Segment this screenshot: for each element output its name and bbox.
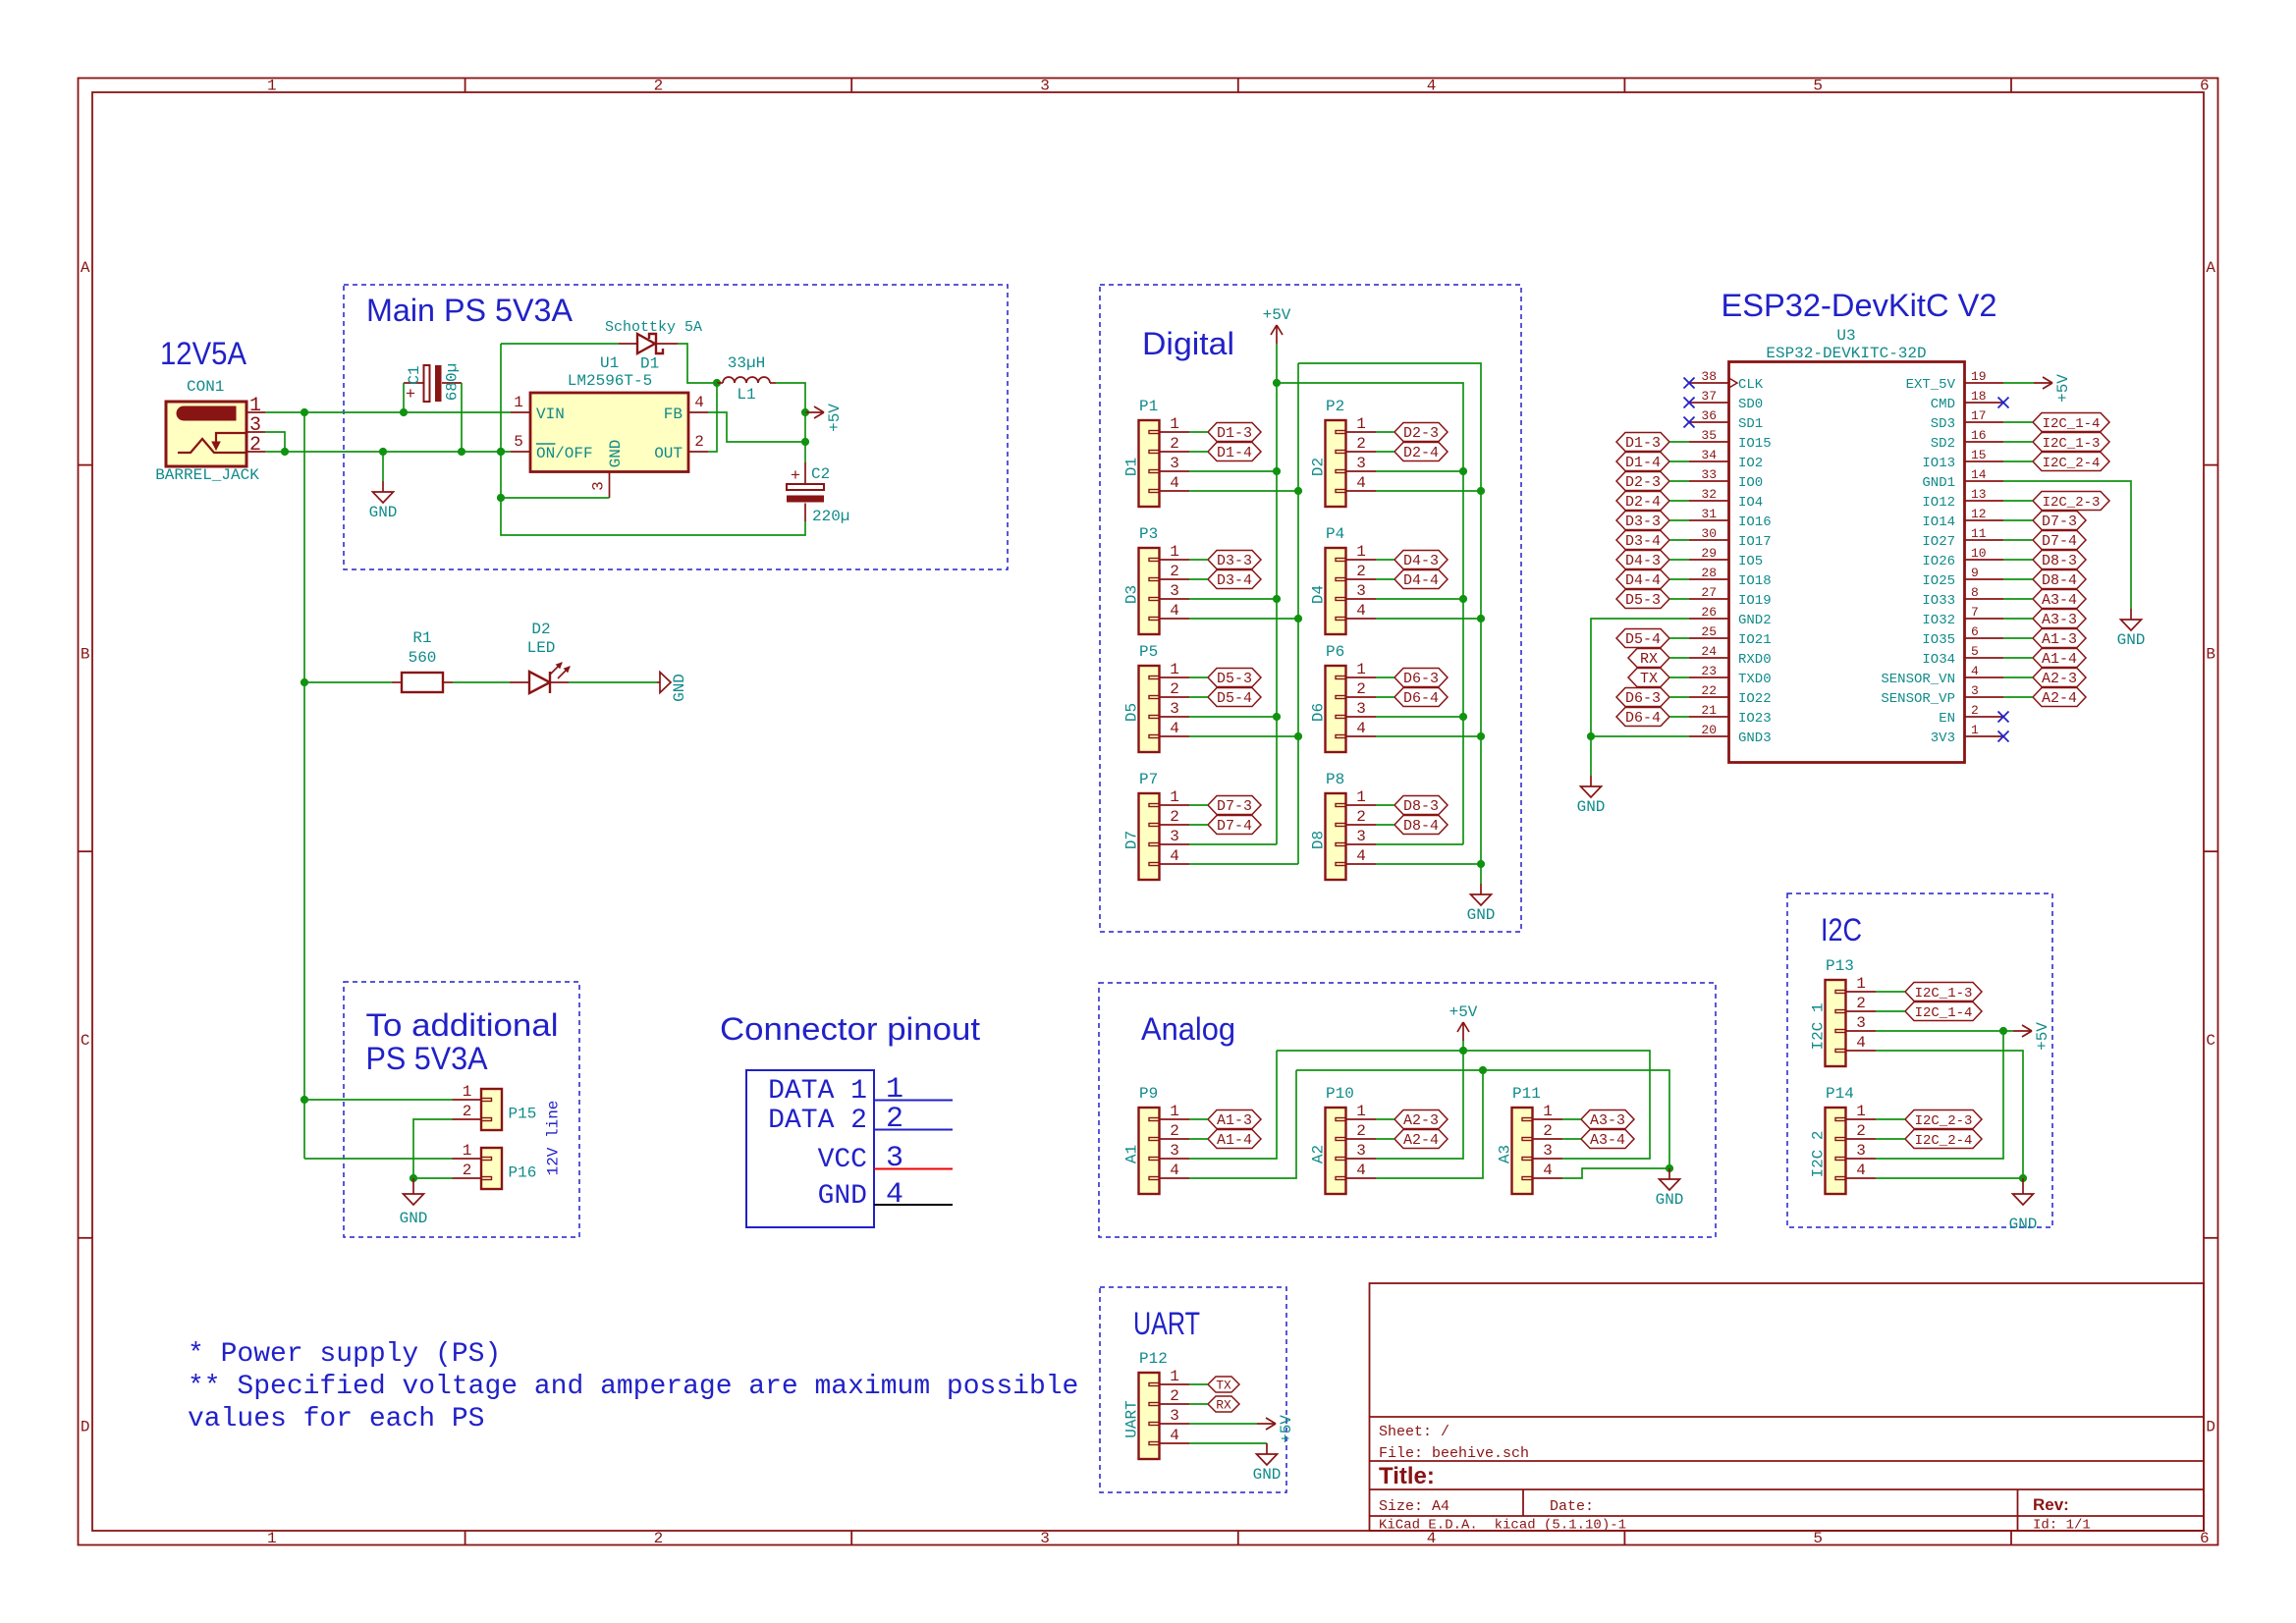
svg-text:D2-3: D2-3 — [1403, 425, 1439, 442]
wire 12V to R1 — [304, 681, 392, 683]
svg-text:PS 5V3A: PS 5V3A — [366, 1041, 489, 1076]
svg-text:680µ: 680µ — [444, 363, 462, 401]
svg-text:34: 34 — [1701, 448, 1717, 462]
global label D2-4 — [1616, 492, 1669, 512]
svg-text:D3-3: D3-3 — [1625, 514, 1661, 530]
junction U3 gnd — [1587, 732, 1595, 740]
svg-text:D8-4: D8-4 — [2042, 572, 2077, 589]
svg-text:I2C_1-3: I2C_1-3 — [2043, 436, 2101, 452]
svg-text:+5V: +5V — [2034, 1022, 2051, 1051]
global label D3-3 — [1208, 551, 1261, 570]
global label D2-3 — [1394, 423, 1448, 443]
svg-text:D7-4: D7-4 — [1217, 818, 1252, 835]
svg-text:23: 23 — [1701, 664, 1717, 678]
global label TX — [1208, 1377, 1239, 1393]
junction i2c +5V — [1999, 1027, 2007, 1035]
svg-text:C2: C2 — [811, 465, 830, 483]
svg-text:GND: GND — [1467, 906, 1496, 924]
svg-text:IO16: IO16 — [1738, 514, 1772, 530]
global label D2-3 — [1616, 472, 1669, 492]
svg-text:P15: P15 — [509, 1106, 537, 1123]
section box UART — [1100, 1287, 1286, 1492]
wire digital GND bus left — [1297, 363, 1299, 864]
connector P10 (A2) — [1310, 1085, 1377, 1194]
svg-text:1: 1 — [1356, 1103, 1366, 1120]
svg-text:6: 6 — [1971, 624, 1979, 639]
global label D4-3 — [1616, 551, 1669, 570]
LED D2 — [510, 621, 570, 693]
svg-text:4: 4 — [1170, 1162, 1179, 1179]
svg-text:D6-3: D6-3 — [1403, 671, 1439, 687]
svg-text:Sheet: /: Sheet: / — [1379, 1424, 1449, 1440]
ground GND (analog) — [1656, 1168, 1684, 1209]
svg-text:1: 1 — [267, 78, 277, 95]
wire P1 pin1 label — [1189, 431, 1208, 433]
junction GND at x510 — [497, 448, 505, 456]
svg-text:Schottky 5A: Schottky 5A — [605, 319, 702, 336]
svg-text:D1-3: D1-3 — [1217, 425, 1252, 442]
global label A2-4 — [2033, 688, 2086, 708]
svg-text:17: 17 — [1971, 408, 1987, 423]
svg-text:27: 27 — [1701, 585, 1717, 600]
wire P16 pin2 to GND — [413, 1177, 453, 1179]
svg-text:P10: P10 — [1326, 1085, 1354, 1103]
svg-text:D6-4: D6-4 — [1403, 690, 1439, 707]
svg-text:SENSOR_VP: SENSOR_VP — [1881, 691, 1955, 707]
global label D8-3 — [2033, 551, 2086, 570]
svg-text:D: D — [81, 1419, 90, 1436]
svg-text:1: 1 — [1856, 1103, 1866, 1120]
wire P8 pin4 GND — [1376, 863, 1481, 865]
ground GND — [1467, 884, 1496, 924]
wire P1 pin2 label — [1189, 451, 1208, 453]
svg-text:3: 3 — [1170, 582, 1179, 600]
svg-text:3: 3 — [1356, 582, 1366, 600]
svg-text:IO34: IO34 — [1922, 652, 1955, 668]
svg-text:Date:: Date: — [1550, 1498, 1594, 1515]
wire D8-3 to U3 — [2003, 559, 2033, 561]
pinout line 4 (GND) — [874, 1204, 953, 1206]
svg-text:3V3: 3V3 — [1931, 730, 1955, 746]
svg-text:DATA 2: DATA 2 — [768, 1106, 867, 1136]
wire A2-3 to U3 — [2003, 676, 2033, 678]
svg-text:4: 4 — [1427, 78, 1437, 95]
wire P13 pin4 GND — [1876, 1051, 2023, 1178]
svg-text:D8-4: D8-4 — [1403, 818, 1439, 835]
svg-text:2: 2 — [886, 1103, 903, 1136]
svg-text:R1: R1 — [412, 629, 431, 647]
diode D1 (Schottky 5A) — [605, 319, 702, 373]
svg-text:D6: D6 — [1310, 703, 1328, 722]
svg-text:D8-3: D8-3 — [2042, 553, 2077, 569]
svg-text:2: 2 — [463, 1162, 472, 1179]
svg-text:P11: P11 — [1512, 1085, 1541, 1103]
wire digital +5V rail top — [1277, 383, 1463, 844]
svg-text:P3: P3 — [1139, 525, 1158, 543]
junction 12V rail at P15 — [301, 1096, 308, 1104]
svg-text:GND: GND — [2117, 631, 2146, 649]
wire P2 pin3 +5V — [1376, 470, 1463, 472]
global label D7-3 — [2033, 512, 2086, 531]
wire P1 pin4 GND — [1189, 490, 1298, 492]
svg-text:VCC: VCC — [818, 1145, 867, 1175]
wire R1 to D2 — [453, 681, 510, 683]
global label I2C_1-4 — [1905, 1002, 1982, 1022]
wire A1-4 to U3 — [2003, 657, 2033, 659]
svg-text:3: 3 — [1170, 828, 1179, 845]
svg-text:A2-3: A2-3 — [2042, 671, 2077, 687]
svg-text:To additional: To additional — [366, 1007, 559, 1043]
svg-text:31: 31 — [1701, 507, 1717, 521]
svg-text:2: 2 — [694, 433, 704, 451]
svg-text:IO13: IO13 — [1922, 456, 1955, 471]
wire D2-4 to U3 — [1669, 500, 1689, 502]
svg-text:TXD0: TXD0 — [1738, 672, 1772, 687]
ground GND — [1253, 1443, 1282, 1484]
wire P11 pin1 label — [1562, 1118, 1581, 1120]
wire P10 pin3 riser — [1376, 1051, 1463, 1159]
svg-text:RXD0: RXD0 — [1738, 652, 1772, 668]
svg-text:1: 1 — [1356, 415, 1366, 433]
svg-text:2: 2 — [1356, 808, 1366, 826]
svg-text:A1-4: A1-4 — [2042, 651, 2077, 668]
wire P12 pin3 to +5V — [1189, 1423, 1257, 1425]
svg-text:B: B — [2206, 645, 2215, 663]
svg-text:22: 22 — [1701, 683, 1717, 698]
svg-text:P7: P7 — [1139, 771, 1158, 788]
svg-text:D3-4: D3-4 — [1625, 533, 1661, 550]
wire D4-3 to U3 — [1669, 559, 1689, 561]
svg-text:IO27: IO27 — [1922, 534, 1955, 550]
svg-text:16: 16 — [1971, 428, 1987, 443]
svg-text:CLK: CLK — [1738, 377, 1764, 393]
power +5V — [1263, 306, 1291, 344]
global label D7-4 — [2033, 531, 2086, 551]
no-connect X — [1998, 731, 2009, 742]
svg-text:GND: GND — [607, 440, 625, 468]
svg-text:1: 1 — [1170, 661, 1179, 678]
svg-text:IO14: IO14 — [1922, 514, 1955, 530]
svg-text:D7-3: D7-3 — [2042, 514, 2077, 530]
svg-text:+5V: +5V — [1263, 306, 1291, 324]
svg-text:560: 560 — [409, 649, 437, 667]
wire GND drop to symbol — [382, 452, 384, 481]
svg-text:CMD: CMD — [1931, 397, 1955, 412]
wire P4 pin2 label — [1376, 578, 1394, 580]
svg-text:5: 5 — [1813, 1530, 1823, 1547]
global label D4-3 — [1394, 551, 1448, 570]
wire P7 pin4 GND — [1189, 863, 1298, 865]
svg-text:I2C_1-4: I2C_1-4 — [1915, 1005, 1973, 1021]
wire P12 pin1 to TX — [1189, 1383, 1208, 1385]
wire P14 pin3 riser — [1876, 1031, 2003, 1159]
svg-text:28: 28 — [1701, 566, 1717, 580]
global label D1-4 — [1208, 443, 1261, 462]
global label D6-3 — [1616, 688, 1669, 708]
pinout line 2 — [874, 1129, 953, 1131]
wire D3-4 to U3 — [1669, 539, 1689, 541]
svg-text:GND: GND — [671, 674, 688, 702]
svg-text:* Power supply (PS): * Power supply (PS) — [188, 1339, 501, 1370]
global label A2-4 — [1394, 1130, 1448, 1150]
global label TX — [1628, 669, 1669, 688]
wire P10 pin1 label — [1376, 1118, 1394, 1120]
svg-text:IO0: IO0 — [1738, 475, 1763, 491]
svg-text:IO21: IO21 — [1738, 632, 1772, 648]
wire P2 pin4 GND — [1376, 490, 1481, 492]
svg-text:1: 1 — [1170, 788, 1179, 806]
svg-text:33: 33 — [1701, 467, 1717, 482]
svg-text:IO12: IO12 — [1922, 495, 1955, 511]
svg-text:GND: GND — [1577, 798, 1606, 816]
svg-text:+5V: +5V — [1278, 1415, 1295, 1443]
svg-text:5: 5 — [1813, 78, 1823, 95]
junction P15/P16 GND — [410, 1174, 417, 1182]
connector P5 (D5) — [1123, 643, 1190, 752]
svg-text:26: 26 — [1701, 605, 1717, 620]
svg-text:D4-4: D4-4 — [1625, 572, 1661, 589]
svg-text:2: 2 — [654, 78, 664, 95]
svg-text:2: 2 — [1856, 1122, 1866, 1140]
svg-text:I2C_2-3: I2C_2-3 — [2043, 495, 2101, 511]
svg-text:2: 2 — [1543, 1122, 1553, 1140]
text notes — [188, 1339, 1078, 1434]
power +5V (rotated) — [1257, 1415, 1295, 1443]
svg-text:+5V: +5V — [2054, 374, 2072, 403]
svg-text:6: 6 — [2200, 1530, 2210, 1547]
svg-text:8: 8 — [1971, 585, 1979, 600]
global label A3-4 — [2033, 590, 2086, 610]
global label D2-4 — [1394, 443, 1448, 462]
svg-text:D4-4: D4-4 — [1403, 572, 1439, 589]
connector P15 — [453, 1083, 537, 1130]
svg-text:D7: D7 — [1123, 831, 1141, 849]
wire P5 pin4 GND — [1189, 735, 1298, 737]
svg-text:15: 15 — [1971, 448, 1987, 462]
junction 12V at C1 — [400, 408, 408, 416]
no-connect X — [1684, 378, 1695, 389]
svg-text:VIN: VIN — [536, 406, 565, 423]
svg-text:TX: TX — [1216, 1379, 1231, 1393]
ground GND — [1577, 776, 1606, 816]
wire GND net (CON1 pin2 to U1 ON/OFF) — [265, 451, 511, 453]
svg-text:3: 3 — [1170, 700, 1179, 718]
svg-text:D6-4: D6-4 — [1625, 710, 1661, 727]
svg-text:+5V: +5V — [826, 404, 844, 432]
junction d — [1459, 713, 1467, 721]
svg-text:29: 29 — [1701, 546, 1717, 561]
power +5V (rotated) — [2013, 1022, 2051, 1051]
wire 12V net (CON1 pin1 to U1 VIN) — [265, 411, 511, 413]
svg-text:1: 1 — [1356, 788, 1366, 806]
junction GND loop at pin5 — [497, 448, 505, 456]
svg-text:D4-3: D4-3 — [1625, 553, 1661, 569]
global label D5-3 — [1208, 669, 1261, 688]
svg-text:P16: P16 — [509, 1164, 537, 1182]
svg-text:12V line: 12V line — [545, 1101, 563, 1176]
svg-text:220µ: 220µ — [812, 508, 849, 525]
junction switch node — [713, 379, 721, 387]
svg-text:2: 2 — [1356, 680, 1366, 698]
section box Analog — [1099, 983, 1716, 1237]
global label D6-4 — [1394, 688, 1448, 708]
svg-text:D1-4: D1-4 — [1217, 445, 1252, 461]
svg-text:D1-4: D1-4 — [1625, 455, 1661, 471]
svg-text:1: 1 — [886, 1073, 903, 1107]
wire C2 bottom loop — [501, 344, 805, 535]
svg-text:1: 1 — [267, 1530, 277, 1547]
junction +5V node — [801, 408, 809, 416]
power +5V (rotated) — [2034, 374, 2072, 403]
global label D5-4 — [1208, 688, 1261, 708]
svg-text:D2: D2 — [1310, 458, 1328, 476]
svg-text:GND: GND — [400, 1210, 428, 1227]
svg-text:4: 4 — [1170, 602, 1179, 620]
svg-text:ON/OFF: ON/OFF — [536, 445, 593, 462]
svg-text:3: 3 — [1856, 1014, 1866, 1032]
wire P13 pin3 +5V — [1876, 1030, 2013, 1032]
svg-text:3: 3 — [1040, 1530, 1050, 1547]
svg-text:3: 3 — [1170, 1407, 1179, 1425]
junction d — [1273, 595, 1281, 603]
svg-text:P8: P8 — [1326, 771, 1344, 788]
svg-text:25: 25 — [1701, 624, 1717, 639]
wire P3 pin1 label — [1189, 559, 1208, 561]
global label I2C_2-4 — [1905, 1130, 1982, 1150]
global label I2C_1-3 — [1905, 983, 1982, 1002]
wire 12V vertical rail — [303, 412, 305, 1159]
wire P4 pin4 GND — [1376, 618, 1481, 620]
wire P6 pin4 GND — [1376, 735, 1481, 737]
wire P9 pin3 to +5V rail — [1189, 1051, 1277, 1159]
svg-text:1: 1 — [1170, 1368, 1179, 1385]
svg-text:D6-3: D6-3 — [1625, 690, 1661, 707]
svg-text:37: 37 — [1701, 389, 1717, 404]
junction analog GND at P10 — [1479, 1066, 1487, 1074]
wire P13 pin2 label — [1876, 1010, 1905, 1012]
svg-text:P13: P13 — [1826, 957, 1854, 975]
section box Digital — [1100, 285, 1521, 932]
svg-text:32: 32 — [1701, 487, 1717, 502]
svg-text:2: 2 — [1170, 680, 1179, 698]
connector P3 (D3) — [1123, 525, 1190, 634]
global label D5-4 — [1616, 629, 1669, 649]
svg-text:1: 1 — [1856, 975, 1866, 993]
svg-text:14: 14 — [1971, 467, 1987, 482]
svg-text:I2C_1-3: I2C_1-3 — [1915, 986, 1973, 1001]
svg-text:I2C: I2C — [1821, 912, 1862, 947]
inductor L1 (33uH) — [717, 354, 776, 404]
global label D6-3 — [1394, 669, 1448, 688]
global label D7-4 — [1208, 816, 1261, 836]
svg-text:Main PS 5V3A: Main PS 5V3A — [366, 293, 574, 328]
svg-text:11: 11 — [1971, 526, 1987, 541]
svg-text:4: 4 — [1170, 847, 1179, 865]
wire P11 pin4 jog — [1562, 1168, 1669, 1178]
svg-text:DATA 1: DATA 1 — [768, 1076, 867, 1107]
svg-text:Digital: Digital — [1142, 326, 1234, 361]
svg-text:36: 36 — [1701, 408, 1717, 423]
wire P11 pin2 label — [1562, 1138, 1581, 1140]
svg-text:GND: GND — [818, 1181, 867, 1212]
global label I2C_2-4 — [2033, 453, 2109, 472]
wire P3 pin4 GND — [1189, 618, 1298, 620]
wire analog GND rail — [1296, 1070, 1669, 1168]
svg-text:D7-4: D7-4 — [2042, 533, 2077, 550]
svg-text:3: 3 — [1356, 700, 1366, 718]
wire D7-4 to U3 — [2003, 539, 2033, 541]
junction d — [1273, 713, 1281, 721]
svg-text:6: 6 — [2200, 78, 2210, 95]
svg-text:1: 1 — [463, 1083, 472, 1101]
wire P10 pin4 riser — [1376, 1070, 1483, 1178]
svg-text:SENSOR_VN: SENSOR_VN — [1881, 672, 1955, 687]
ground GND — [369, 481, 398, 521]
wire P12 pin2 to RX — [1189, 1403, 1208, 1405]
svg-text:D1-3: D1-3 — [1625, 435, 1661, 452]
svg-text:D3: D3 — [1123, 585, 1141, 604]
junction d — [1459, 595, 1467, 603]
svg-text:A2: A2 — [1310, 1145, 1328, 1163]
junction d — [1294, 732, 1302, 740]
wire C1 left lead down — [403, 383, 405, 412]
global label A1-4 — [2033, 649, 2086, 669]
svg-text:D1: D1 — [1123, 458, 1141, 476]
svg-text:2: 2 — [1356, 435, 1366, 453]
svg-text:13: 13 — [1971, 487, 1987, 502]
svg-text:P6: P6 — [1326, 643, 1344, 661]
svg-text:4: 4 — [1170, 474, 1179, 492]
connector P8 (D8) — [1310, 771, 1377, 880]
svg-text:2: 2 — [1356, 563, 1366, 580]
junction d — [1459, 467, 1467, 475]
svg-text:ESP32-DevKitC V2: ESP32-DevKitC V2 — [1722, 288, 1997, 323]
svg-text:A1-3: A1-3 — [2042, 631, 2077, 648]
junction d — [1273, 467, 1281, 475]
wire A2-4 to U3 — [2003, 696, 2033, 698]
junction d — [1477, 732, 1485, 740]
svg-text:I2C_2-4: I2C_2-4 — [1915, 1133, 1973, 1149]
wire analog +5V stub — [1462, 1041, 1464, 1051]
resistor R1 (560) — [392, 629, 453, 692]
svg-text:IO26: IO26 — [1922, 554, 1955, 569]
connector P2 (D2) — [1310, 398, 1377, 507]
svg-text:10: 10 — [1971, 546, 1987, 561]
wire P6 pin1 label — [1376, 676, 1394, 678]
svg-text:D2-3: D2-3 — [1625, 474, 1661, 491]
svg-text:Rev:: Rev: — [2033, 1495, 2069, 1514]
wire P6 pin2 label — [1376, 696, 1394, 698]
pinout line 1 — [874, 1100, 953, 1102]
wire P14 pin4 GND — [1876, 1177, 2023, 1179]
svg-text:A3-4: A3-4 — [2042, 592, 2077, 609]
svg-text:LM2596T-5: LM2596T-5 — [568, 372, 652, 390]
global label I2C_1-4 — [2033, 413, 2109, 433]
wire P14 pin1 label — [1876, 1118, 1905, 1120]
svg-text:D5-4: D5-4 — [1217, 690, 1252, 707]
svg-text:2: 2 — [1356, 1122, 1366, 1140]
svg-text:D3-3: D3-3 — [1217, 553, 1252, 569]
global label D1-3 — [1616, 433, 1669, 453]
svg-text:B: B — [81, 645, 90, 663]
wire EXT_5V to +5V — [2003, 382, 2034, 384]
connector P13 (I2C 1) — [1810, 957, 1877, 1066]
wire D3-3 to U3 — [1669, 519, 1689, 521]
wire 12V to P16 pin1 — [304, 1158, 453, 1160]
svg-text:D5-4: D5-4 — [1625, 631, 1661, 648]
svg-text:CON1: CON1 — [187, 378, 224, 396]
wire P2 pin2 label — [1376, 451, 1394, 453]
